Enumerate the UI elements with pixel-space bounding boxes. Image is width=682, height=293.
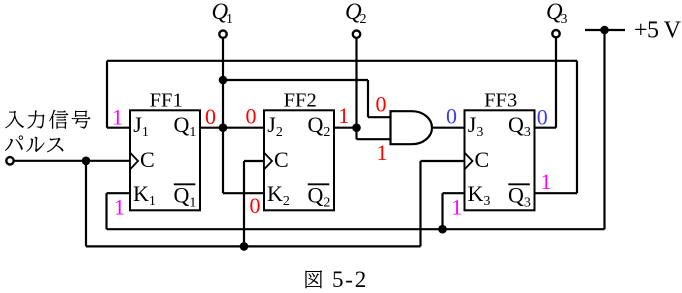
wire Q2 to AND input B <box>355 128 357 140</box>
svg-text:1: 1 <box>338 103 349 128</box>
svg-text:5-2: 5-2 <box>332 267 368 292</box>
wire Q3 up to terminal <box>555 38 557 127</box>
svg-text:0: 0 <box>246 103 257 128</box>
terminal Q1 <box>219 31 226 38</box>
wire right vertical up <box>576 61 578 193</box>
svg-text:FF3: FF3 <box>484 90 517 112</box>
junction +5V <box>600 26 609 35</box>
svg-text:3: 3 <box>561 12 568 27</box>
wire clock to FF2 C <box>243 161 245 246</box>
flip-flop FF2 <box>264 90 334 211</box>
wire clock bottom <box>86 245 421 247</box>
svg-text:+5 V: +5 V <box>634 17 682 43</box>
wire AND output to J3 <box>432 127 465 129</box>
wire +5V down <box>603 30 605 229</box>
svg-text:0: 0 <box>446 104 457 129</box>
AND gate <box>391 111 433 144</box>
+5V stub <box>585 29 625 31</box>
caption 図 5-2 <box>305 267 368 292</box>
wire Q1 to AND input A <box>223 79 368 81</box>
svg-text:FF2: FF2 <box>284 90 317 112</box>
wire Q1 to J2 <box>200 127 264 129</box>
svg-text:0: 0 <box>376 92 387 117</box>
flip-flop FF1 <box>130 90 200 211</box>
wire Q3 output <box>535 127 557 129</box>
wire to K1 <box>105 193 107 229</box>
junction Q1 <box>219 123 228 132</box>
wire down to J1 <box>106 61 108 128</box>
wire Q2 up to terminal <box>355 39 357 128</box>
wire Q1 up to terminal <box>222 39 224 128</box>
svg-text:C: C <box>140 147 155 172</box>
terminal Q3 <box>552 30 559 37</box>
wire clock down-left <box>85 161 87 247</box>
svg-text:1: 1 <box>541 169 552 194</box>
junction Q1 to AND <box>219 76 228 85</box>
wire Q1 down to K2 <box>222 128 224 194</box>
svg-text:1: 1 <box>377 140 388 165</box>
wire Q3bar output <box>535 192 578 194</box>
svg-text:C: C <box>475 147 490 172</box>
svg-text:C: C <box>274 147 289 172</box>
svg-text:1: 1 <box>226 12 233 27</box>
wire top feedback <box>107 60 577 62</box>
svg-text:1: 1 <box>114 195 125 220</box>
flip-flop FF3 <box>465 90 535 211</box>
label 入力信号 <box>5 110 90 129</box>
wire K feedback bottom <box>107 228 605 230</box>
junction K3 branch <box>438 225 447 234</box>
junction clock FF2 branch <box>240 242 249 251</box>
svg-text:2: 2 <box>360 12 367 27</box>
svg-text:0: 0 <box>537 105 548 130</box>
label パルス <box>5 135 64 152</box>
junction input clock <box>82 157 91 166</box>
svg-text:0: 0 <box>205 104 216 129</box>
wire Q2 output <box>334 127 357 129</box>
terminal Q2 <box>353 31 360 38</box>
svg-text:1: 1 <box>112 105 123 130</box>
svg-text:1: 1 <box>451 195 462 220</box>
svg-text:FF1: FF1 <box>150 90 183 112</box>
wire input to C of FF1 <box>15 160 130 162</box>
junction Q2 <box>352 123 361 132</box>
input terminal circle <box>6 157 13 164</box>
wire clock to FF3 C <box>419 161 421 246</box>
svg-text:0: 0 <box>250 193 261 218</box>
wire to K3 <box>441 193 443 229</box>
